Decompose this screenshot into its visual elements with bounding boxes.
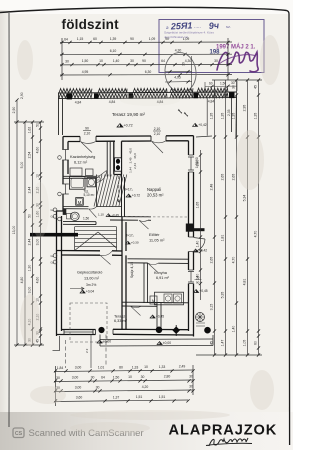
svg-text:2,10: 2,10 [154,132,161,136]
svg-text:1,35: 1,35 [210,113,214,120]
svg-text:CS: CS [15,431,23,437]
stairwell strip hatch [94,175,127,207]
svg-text:50: 50 [36,123,40,127]
svg-text:M: M [78,200,82,205]
svg-text:Go: Go [51,208,55,212]
svg-text:3×17₀: 3×17₀ [124,188,134,192]
svg-text:30: 30 [91,376,95,380]
bottom chain ticks row2 [54,379,195,382]
boiler room right wall [107,141,110,176]
washing machine M [76,198,84,206]
right wall entry door [189,237,206,252]
svg-text:1,50: 1,50 [220,81,226,85]
terrace top edge line [58,92,237,93]
svg-text:Go: Go [51,254,55,258]
svg-text:sz.: sz. [226,24,231,29]
chimney on right wall [186,224,194,232]
svg-text:.....: ..... [194,24,201,30]
hall wall below wc [63,221,96,224]
svg-text:4,20: 4,20 [142,385,149,389]
kitchen door swing [148,263,158,272]
hall door swing [139,220,149,229]
door swing terrace->nappali [151,141,166,153]
svg-text:2,65: 2,65 [210,257,214,264]
svg-text:Kazánhelyiség: Kazánhelyiség [70,154,95,159]
svg-text:1,10: 1,10 [98,213,104,217]
svg-text:10: 10 [36,174,40,178]
terrace left edge [59,93,63,135]
left chain numbers col2 [20,162,24,284]
svg-text:1997 MÁJ 2 1.: 1997 MÁJ 2 1. [216,44,256,51]
svg-text:5,00: 5,00 [20,162,24,169]
wall bath/wc divider [63,206,89,209]
right wall kitchen window [188,270,194,284]
svg-text:45,0: 45,0 [129,148,133,154]
bottom chain ticks row3 [54,389,195,392]
svg-text:45: 45 [210,341,214,345]
svg-text:6,10: 6,10 [110,49,117,53]
svg-text:±0,00: ±0,00 [163,341,171,345]
porch columns [98,327,104,333]
svg-text:1,51: 1,51 [159,395,166,399]
svg-text:5,34: 5,34 [243,195,247,202]
left wall window boiler [62,150,69,161]
svg-text:90: 90 [130,37,134,41]
svg-text:2,44: 2,44 [28,187,32,194]
svg-text:2,90: 2,90 [12,107,16,114]
svg-text:2,49: 2,49 [179,365,186,369]
garage door swing from hall [100,251,112,265]
terrace railing scribble 1 [59,89,92,93]
svg-text:30: 30 [214,59,218,63]
svg-text:1,15: 1,15 [77,37,84,41]
svg-text:Előtér: Előtér [149,232,160,237]
svg-text:9ч: 9ч [208,20,220,31]
stamp signature [217,52,258,72]
svg-text:45: 45 [254,85,258,89]
svg-text:2,65: 2,65 [232,174,236,181]
terrace corner columns [67,94,73,100]
bottom chain numbers row1 [57,365,186,370]
stamp box [159,20,264,73]
svg-text:1,01: 1,01 [98,366,105,370]
svg-text:30: 30 [130,59,134,63]
svg-text:+0,04: +0,04 [86,290,95,294]
svg-text:90: 90 [85,127,89,131]
terrace railing scribble 3 [133,88,167,92]
chimney wall [114,141,122,174]
wc toilet [67,213,72,219]
svg-text:4,84: 4,84 [75,101,82,105]
svg-text:1,40: 1,40 [232,326,236,333]
svg-text:3,00: 3,00 [75,386,82,390]
svg-text:2,48: 2,48 [210,184,214,191]
svg-text:90: 90 [142,59,146,63]
svg-text:4,81: 4,81 [243,279,247,286]
svg-text:4,84: 4,84 [109,100,116,104]
wall boiler/bath divider [63,176,96,178]
circled dimension [163,51,198,94]
svg-text:1,40: 1,40 [113,59,120,63]
bath washbasin [87,178,96,187]
top chain numbers row3 [65,59,218,63]
svg-text:3m 2%: 3m 2% [86,283,96,287]
left wall window bath [62,184,69,194]
driveway center line [90,335,92,369]
svg-text:60: 60 [254,341,258,345]
entry step circle shrub [196,313,205,322]
svg-text:1,40: 1,40 [196,241,200,248]
svg-text:5,10 m²: 5,10 m² [84,193,95,197]
svg-text:13,00: 13,00 [12,226,16,235]
boiler equipment rects [70,168,82,176]
kitchen counter [155,292,184,305]
spajz right wall [144,263,148,303]
svg-text:2 2: 2 2 [85,348,89,353]
terrace railing scribble 5 [197,88,228,92]
svg-text:1,51: 1,51 [136,395,143,399]
stair arrow dashed [117,176,120,203]
svg-text:2,90: 2,90 [20,92,24,99]
svg-text:1,37: 1,37 [113,395,120,399]
elevation flag +0,72 terrace [117,124,133,128]
flag +0,45 outside kitchen [194,289,208,293]
svg-text:+0,30: +0,30 [131,241,139,245]
wc door swing [89,207,97,218]
svg-text:1,33: 1,33 [132,365,139,369]
svg-text:4,80: 4,80 [20,277,24,284]
bath door swing top [96,171,106,183]
terrain step line [53,336,60,351]
svg-text:Konyha: Konyha [154,271,168,275]
svg-text:3,15: 3,15 [210,304,214,311]
svg-text:60: 60 [209,82,213,86]
section cut bar [30,233,78,237]
svg-text:30: 30 [65,59,69,63]
house top wall outer [63,135,194,138]
svg-text:1,39: 1,39 [110,37,117,41]
svg-text:4,30: 4,30 [185,59,192,63]
svg-text:2,44: 2,44 [133,163,137,169]
porch steps below bottom wall [100,339,213,346]
svg-text:+0,72: +0,72 [132,194,141,198]
flag +0,45 porch [150,315,164,319]
svg-text:2,35: 2,35 [227,109,231,116]
door swing terrace->boiler [81,141,97,152]
svg-text:30: 30 [232,85,236,89]
top chain numbers row1 [64,37,189,42]
svg-text:4,70: 4,70 [254,231,258,238]
svg-text:30: 30 [141,375,145,379]
svg-text:2,54: 2,54 [28,152,32,159]
terrace span labels [75,100,215,105]
svg-text:+0,45: +0,45 [156,315,165,319]
svg-text:10: 10 [99,59,103,63]
Go markers left wall [53,156,61,264]
svg-text:ALAPRAJZOK: ALAPRAJZOK [169,423,278,439]
svg-text:4,95: 4,95 [82,70,89,74]
paper left edge [8,13,10,427]
left chain numbers col4 [36,123,40,343]
flag pm 0,00 bottom left [97,340,111,344]
svg-text:3×17₀: 3×17₀ [126,234,135,238]
svg-text:30: 30 [56,376,60,380]
svg-text:Gépkocsitároló: Gépkocsitároló [77,271,102,275]
svg-text:2,10: 2,10 [84,132,91,136]
svg-text:1,30: 1,30 [28,265,32,272]
camscanner badge [13,428,24,438]
svg-text:Terasz 19,90 m²: Terasz 19,90 m² [112,112,145,117]
svg-text:64: 64 [101,375,105,379]
svg-text:6,33 m²: 6,33 m² [114,319,128,323]
wc radiator dark block [63,209,67,215]
svg-text:M: M [152,299,155,303]
svg-text:30: 30 [189,374,193,378]
svg-text:1,80: 1,80 [196,160,200,167]
svg-text:4,70: 4,70 [232,257,236,264]
bottom chain numbers row2 [56,374,193,379]
svg-text:1,09: 1,09 [149,37,156,41]
kitchen bottom wall / porch top [122,302,189,306]
garage car dashed outline [70,303,107,342]
nappali left wall lower [122,175,125,217]
svg-text:±0,00: ±0,00 [103,340,111,344]
svg-text:64: 64 [64,38,68,42]
svg-text:6,12 m²: 6,12 m² [74,160,88,165]
stairwell borders [97,175,122,207]
svg-text:11,05 m²: 11,05 m² [149,238,165,243]
terrace right edge going down [235,95,238,138]
svg-text:30: 30 [189,384,193,388]
porch right wall [157,303,161,330]
svg-text:64: 64 [161,59,165,63]
stair treads lower hall [75,227,117,251]
flag pm 0,00 bottom mid [157,341,171,345]
svg-text:1,40: 1,40 [196,274,200,281]
svg-text:2,10: 2,10 [154,127,161,131]
svg-text:+0,72: +0,72 [124,124,133,128]
bottom dim chain lines [54,365,193,406]
svg-text:3,00: 3,00 [75,366,82,370]
paper top edge [0,7,287,12]
flag +0,42 outside entry [193,249,207,253]
terrace railing scribble 4 [170,88,193,92]
bath tub [70,177,86,190]
svg-text:4,60: 4,60 [36,147,40,154]
svg-text:90: 90 [165,37,169,41]
svg-text:1,81: 1,81 [221,235,225,242]
svg-text:földszint: földszint [62,17,120,32]
hall/stair wall y216 right part [110,217,151,221]
terrace railing scribble 2 [98,89,127,93]
svg-text:10: 10 [128,375,132,379]
svg-text:3,00: 3,00 [36,239,40,246]
svg-text:20,53 m²: 20,53 m² [147,193,164,198]
svg-text:Spájz 4,15: Spájz 4,15 [130,262,134,278]
svg-text:1,35: 1,35 [232,113,236,120]
svg-text:30: 30 [231,81,235,85]
paper right edge [287,11,290,446]
top chain ticks row4 [60,73,229,76]
svg-text:1,09: 1,09 [183,37,190,41]
svg-text:80: 80 [119,365,123,369]
spajz door swing from porch [131,306,142,315]
terrace inner edge line [58,98,237,99]
svg-text:Go: Go [51,260,55,264]
nappali left rotated dims [129,148,137,173]
kitchen/spajz top wall [128,259,189,264]
right chain numbers [196,160,200,281]
bottom chain ticks row4 [54,399,190,402]
svg-text:6,30: 6,30 [145,70,152,74]
chimney cells black [115,158,122,171]
right wall window 1 [188,155,194,172]
left chain numbers col1 [12,107,16,235]
right mini dim lines [165,56,192,87]
scan blotches [17,35,280,434]
top chain numbers row4 [82,70,181,80]
svg-text:4,84: 4,84 [208,100,215,104]
nappali-eloter dashed boundary [122,216,189,218]
svg-text:1,62: 1,62 [28,127,32,134]
garage Dm arrow [70,287,84,290]
terrace right partition line [206,98,208,136]
right outer wall [189,136,194,337]
svg-text:1,47: 1,47 [221,340,225,347]
left outer wall garage step [57,211,64,336]
svg-text:1,84: 1,84 [57,366,64,370]
svg-text:4,95: 4,95 [174,76,181,80]
signature lipoti [206,438,252,446]
svg-text:Go: Go [51,215,55,219]
svg-text:50: 50 [28,214,32,218]
house top wall inner [68,140,189,143]
svg-text:Terasz: Terasz [114,315,125,319]
flag +0,42 terrace right [193,123,207,127]
svg-text:3,00: 3,00 [28,287,32,294]
top chain ticks row2 [60,53,229,56]
svg-text:30: 30 [182,62,186,66]
porch door opening bottom [96,329,114,334]
svg-text:1,35: 1,35 [221,113,225,120]
diamond marker [172,326,180,334]
right dim chain vertical lines [196,80,262,355]
svg-text:+0,42: +0,42 [198,123,207,127]
svg-text:60: 60 [93,37,97,41]
svg-text:2,65: 2,65 [221,174,225,181]
kitchen M box [150,296,157,304]
svg-text:5,35: 5,35 [221,292,225,299]
svg-text:+0,45: +0,45 [111,213,119,217]
svg-text:Szigetközi terület főépítésze: Szigetközi terület főépítésze 4. Közs [164,31,214,35]
left chain numbers col3 [28,127,32,342]
left dim chain vertical lines [14,100,44,345]
svg-text:2,44: 2,44 [28,239,32,246]
top chain ticks row3 [60,63,229,66]
svg-text:1,05: 1,05 [243,340,247,347]
svg-text:4,30: 4,30 [175,49,182,53]
top wall left jamb [63,136,166,142]
svg-text:6,91 m²: 6,91 m² [156,276,170,280]
svg-text:2,95: 2,95 [243,105,247,112]
right chain ticks [199,153,202,285]
svg-text:1,50: 1,50 [82,59,89,63]
top chain numbers row2 [110,49,182,54]
svg-text:3,00: 3,00 [72,376,79,380]
svg-text:46,0: 46,0 [133,153,137,159]
svg-text:1,50: 1,50 [113,375,120,379]
elevation flag nappali [126,194,140,198]
bottom chain numbers row3 [56,384,193,389]
right mini chain above wall [205,81,237,92]
svg-text:2,80: 2,80 [164,375,171,379]
left outer wall upper [63,137,68,212]
bottom chain numbers row4 [76,395,166,400]
svg-text:30: 30 [96,386,100,390]
garage door opening [64,331,93,333]
left chain ticks [15,98,18,346]
svg-text:4,60: 4,60 [36,277,40,284]
entry steps arrows [196,323,205,326]
small sketch ticks [178,109,188,117]
svg-text:1,33: 1,33 [159,365,166,369]
bottom chain ticks row1 [54,369,195,372]
bottom wall [57,329,194,335]
svg-text:1,50: 1,50 [83,217,89,221]
stamp small print lines [164,31,214,40]
svg-text:1,65: 1,65 [196,202,200,209]
top dimension chain lines [60,38,232,80]
svg-text:Nappali: Nappali [147,187,161,192]
wall hall/garage divider [57,251,123,256]
svg-text:3,60: 3,60 [76,396,83,400]
svg-text:13,00 m²: 13,00 m² [84,277,100,281]
top chain ticks row1 [60,41,229,44]
svg-text:1,35: 1,35 [254,113,258,120]
svg-text:10: 10 [144,365,148,369]
